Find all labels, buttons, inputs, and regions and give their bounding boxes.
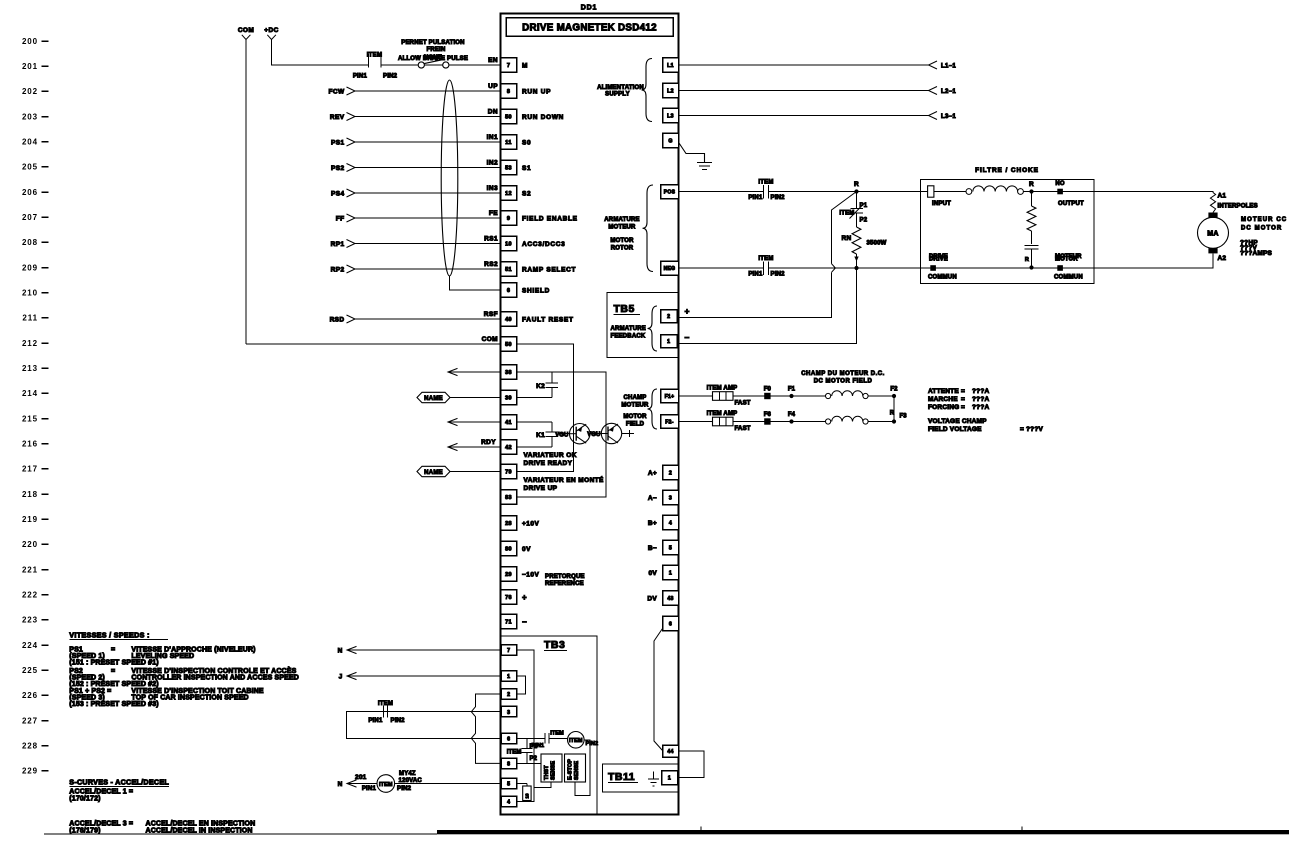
svg-text:RUN UP: RUN UP (522, 88, 551, 95)
svg-text:(151 : PRESET SPEED #1): (151 : PRESET SPEED #1) (69, 660, 158, 667)
wire U1 to U2 (590, 433, 601, 435)
terminal 4 (B+) (663, 515, 679, 530)
svg-text:FCW: FCW (329, 88, 345, 95)
terminal 7 (M) (501, 58, 517, 73)
svg-text:RS2: RS2 (484, 261, 498, 268)
svg-text:3: 3 (669, 496, 672, 502)
terminal TB11-1 (662, 771, 678, 785)
terminal 2 (A+) (663, 465, 679, 480)
svg-text:ITEM: ITEM (569, 738, 583, 744)
svg-text:222: 222 (22, 591, 38, 600)
resistor RN 3500W (856, 213, 858, 227)
svg-text:ARMATURE: ARMATURE (604, 217, 640, 223)
svg-text:12: 12 (505, 191, 512, 197)
svg-text:NONE: NONE (424, 55, 442, 61)
svg-text:42: 42 (505, 445, 512, 451)
svg-text:COM: COM (482, 336, 498, 343)
terminal 49 (FAULT RESET) (501, 312, 517, 327)
terminal 44 (663, 745, 679, 757)
svg-text:???A: ???A (972, 388, 990, 395)
svg-text:VITESSES / SPEEDS :: VITESSES / SPEEDS : (69, 631, 149, 640)
svg-text:204: 204 (22, 137, 38, 146)
svg-text:F2-: F2- (665, 420, 673, 426)
svg-text:FAST: FAST (735, 426, 751, 432)
svg-text:PS4: PS4 (331, 190, 345, 197)
svg-text:NAME: NAME (424, 396, 443, 402)
output arrow at 41 (448, 418, 458, 425)
svg-text:53: 53 (505, 166, 512, 172)
svg-text:PIN2: PIN2 (383, 74, 398, 80)
svg-text:=: = (111, 668, 115, 675)
svg-text:229: 229 (22, 767, 38, 776)
svg-text:PIN2: PIN2 (586, 741, 599, 747)
wire L1 to L1−1 (679, 64, 929, 66)
svg-text:5: 5 (669, 546, 672, 552)
terminal 50 (COM) (501, 337, 517, 352)
svg-text:PIN1: PIN1 (362, 786, 377, 792)
svg-text:R: R (890, 411, 895, 417)
svg-text:B−: B− (648, 545, 657, 552)
svg-text:MOTEUR: MOTEUR (621, 403, 649, 409)
terminal 39 (501, 390, 517, 405)
terminal TB3-4 (501, 796, 517, 807)
terminal NEG (661, 261, 679, 275)
svg-text:9: 9 (507, 216, 510, 222)
wire L2 to L2−1 (679, 90, 929, 92)
wire L3 to L3−1 (679, 115, 929, 117)
svg-text:COM: COM (238, 27, 254, 34)
svg-text:L3: L3 (667, 114, 674, 120)
svg-text:N: N (338, 781, 343, 788)
svg-text:PIN1: PIN1 (368, 718, 383, 724)
svg-text:218: 218 (22, 490, 38, 499)
svg-text:B+: B+ (648, 520, 657, 527)
terminal 79 (501, 464, 517, 479)
svg-text:F1: F1 (788, 387, 796, 393)
terminal 83 (501, 490, 517, 505)
wire POS bus (679, 191, 764, 193)
svg-text:COMMUN: COMMUN (1054, 275, 1083, 281)
svg-text:1: 1 (669, 571, 672, 577)
node F2 (892, 394, 896, 398)
svg-text:=: = (961, 396, 965, 403)
fuse on filter input (928, 186, 934, 197)
svg-text:FIELD VOLTAGE: FIELD VOLTAGE (928, 426, 982, 433)
wire TB3-1 to TB3-2 jumper (517, 676, 526, 694)
ground TB11 (653, 772, 655, 780)
terminal 71 (501, 614, 517, 629)
svg-text:NEG: NEG (664, 266, 676, 272)
svg-text:DC MOTOR FIELD: DC MOTOR FIELD (814, 379, 873, 385)
wire 44 to TB11-1 (678, 751, 704, 778)
terminal TB3-8 (501, 758, 517, 769)
svg-text:RAMP SELECT: RAMP SELECT (522, 266, 576, 273)
motor brush bottom (1208, 248, 1217, 253)
svg-text:ITEM: ITEM (507, 750, 522, 756)
svg-text:ACCEL/DECEL 3 =: ACCEL/DECEL 3 = (69, 820, 133, 827)
terminal 41 (501, 415, 517, 430)
svg-text:RSF: RSF (484, 311, 498, 318)
svg-text:226: 226 (22, 691, 38, 700)
wire hop over NEG (832, 264, 836, 273)
drive block DD1 outline (501, 14, 679, 815)
svg-text:OUTPUT: OUTPUT (1058, 201, 1084, 207)
svg-text:FAULT RESET: FAULT RESET (522, 316, 574, 323)
svg-text:UP: UP (488, 83, 498, 90)
svg-text:227: 227 (22, 716, 38, 725)
wire TB3-2 to TB3-8 with crossover jogs (471, 694, 501, 763)
wire POS through filter (921, 191, 970, 193)
svg-text:+10V: +10V (522, 520, 540, 527)
fuse between TB3-5 and TB3-4 (517, 783, 527, 785)
svg-text:−10V: −10V (522, 571, 540, 578)
svg-text:3500W: 3500W (867, 241, 887, 247)
terminal POS (661, 185, 679, 199)
svg-text:A−: A− (648, 495, 657, 502)
terminal 51 (RAMP SELECT) (501, 262, 517, 277)
svg-text:PIN2: PIN2 (771, 272, 786, 278)
title box DRIVE MAGNETEK DSD412 (506, 18, 673, 37)
svg-text:N: N (338, 647, 343, 654)
terminal TB5-2 (+) (661, 310, 678, 323)
ground at G (679, 143, 705, 163)
svg-text:PIN2: PIN2 (391, 718, 406, 724)
svg-text:SENSE: SENSE (551, 761, 557, 780)
svg-text:P2: P2 (860, 218, 868, 224)
terminal 1 (0V) (663, 565, 679, 580)
contact ITEM PIN1/PIN2 in NEG lead (763, 261, 765, 275)
line number rail 200-229 (22, 37, 38, 776)
svg-text:−: − (685, 333, 690, 343)
svg-text:=: = (961, 404, 965, 411)
block TB11 (603, 764, 679, 792)
svg-text:221: 221 (22, 565, 38, 574)
switch PERMET PULSATION FREIN / ALLOW BRAKE PULSE (381, 64, 418, 66)
svg-text:215: 215 (22, 414, 38, 423)
svg-text:P2: P2 (530, 756, 538, 762)
junction filter cap to commun (1029, 265, 1033, 269)
svg-text:SHIELD: SHIELD (522, 287, 550, 294)
svg-text:DRIVE: DRIVE (929, 257, 948, 263)
svg-text:CHAMP: CHAMP (624, 395, 647, 401)
svg-text:DRIVE UP: DRIVE UP (524, 485, 558, 492)
svg-text:VARIATEUR OK: VARIATEUR OK (524, 452, 577, 459)
svg-text:PRETORQUE: PRETORQUE (545, 574, 585, 580)
svg-text:IN2: IN2 (487, 160, 498, 167)
interpoles winding (1210, 193, 1215, 213)
svg-text:29: 29 (505, 572, 512, 578)
terminal TB3-3 (501, 706, 517, 717)
svg-text:MA: MA (1207, 231, 1219, 238)
svg-text:NAME: NAME (424, 470, 443, 476)
svg-text:2: 2 (669, 471, 672, 477)
vertical through U1 (COM-79 net) (573, 344, 575, 472)
svg-text:212: 212 (22, 339, 38, 348)
motor MA (1198, 217, 1229, 248)
wire NEG through filter (921, 267, 1095, 269)
svg-text:200: 200 (22, 37, 38, 46)
svg-text:RP2: RP2 (331, 266, 345, 273)
svg-text:ATTENTE: ATTENTE (928, 388, 959, 395)
svg-text:=: = (111, 646, 115, 653)
svg-text:211: 211 (22, 314, 38, 323)
svg-text:= ???V: = ???V (1020, 426, 1044, 433)
svg-text:8: 8 (507, 762, 510, 768)
svg-text:208: 208 (22, 238, 38, 247)
svg-text:DN: DN (488, 109, 498, 116)
svg-text:S1: S1 (522, 165, 531, 172)
svg-text:38: 38 (505, 370, 512, 376)
svg-text:201: 201 (22, 62, 38, 71)
node F3 (892, 419, 896, 423)
svg-text:F1+: F1+ (665, 394, 675, 400)
svg-text:219: 219 (22, 515, 38, 524)
terminal TB5-1 (-) (661, 335, 678, 348)
svg-text:FAST: FAST (735, 401, 751, 407)
terminal 53 (S1) (501, 160, 517, 175)
svg-text:TB5: TB5 (614, 303, 635, 315)
svg-text:TB3: TB3 (544, 639, 565, 651)
svg-text:ITEM: ITEM (378, 701, 393, 707)
svg-text:MOTOR: MOTOR (610, 238, 634, 244)
svg-text:MY4Z: MY4Z (399, 771, 416, 777)
relay contact K2 between 38 and 39 (517, 397, 552, 399)
svg-text:PERNET PULSATION: PERNET PULSATION (401, 40, 464, 46)
svg-text:E-STOP: E-STOP (568, 759, 574, 780)
transistor/opto U1 (570, 424, 590, 444)
wire COM vertical to terminal 50 (245, 40, 247, 345)
svg-text:MOTEUR: MOTEUR (608, 225, 636, 231)
svg-text:220: 220 (22, 540, 38, 549)
svg-text:80: 80 (505, 547, 512, 553)
svg-text:+DC: +DC (264, 27, 278, 34)
svg-text:7: 7 (507, 63, 510, 69)
terminal 3 (A−) (663, 490, 679, 505)
svg-text:L1−1: L1−1 (941, 63, 956, 69)
svg-text:F0: F0 (764, 387, 772, 393)
block FILTRE / CHOKE (921, 180, 1095, 284)
terminal 50 (RUN DOWN) (501, 109, 517, 124)
arrow L1−1 (929, 61, 938, 69)
svg-text:2: 2 (667, 314, 670, 320)
svg-text:MOTOR: MOTOR (623, 414, 647, 420)
svg-text:(153 : PRESET SPEED #3): (153 : PRESET SPEED #3) (69, 701, 158, 708)
node tag NAME to terminal 79 (450, 471, 501, 473)
breaker contact ITEM P1/P2 (856, 192, 858, 209)
svg-text:(170/172): (170/172) (69, 796, 100, 803)
svg-text:RS1: RS1 (484, 236, 498, 243)
svg-text:3: 3 (507, 710, 510, 716)
box THST SENSE (541, 754, 562, 782)
svg-text:PIN1: PIN1 (353, 74, 368, 80)
svg-text:COMMUN: COMMUN (928, 275, 957, 281)
field circuit row F2 (679, 421, 713, 423)
svg-text:???A: ???A (972, 396, 990, 403)
wire motor A2 return (1094, 253, 1213, 268)
svg-text:+: + (685, 306, 690, 316)
svg-text:FF: FF (336, 215, 345, 222)
svg-text:202: 202 (22, 87, 38, 96)
cable bundle (shielded group) (441, 80, 458, 276)
svg-text:217: 217 (22, 465, 38, 474)
svg-text:VGU: VGU (555, 432, 568, 438)
svg-text:RDY: RDY (481, 439, 496, 446)
svg-text:209: 209 (22, 263, 38, 272)
svg-text:4: 4 (507, 800, 510, 806)
svg-text:L3−1: L3−1 (941, 114, 956, 120)
svg-text:K2: K2 (536, 383, 545, 390)
svg-text:39: 39 (505, 396, 512, 402)
svg-text:G: G (668, 139, 672, 145)
svg-text:1: 1 (507, 674, 510, 680)
svg-text:−: − (522, 618, 527, 627)
svg-text:VARIATEUR EN MONTÉ: VARIATEUR EN MONTÉ (524, 475, 605, 484)
svg-text:205: 205 (22, 163, 38, 172)
svg-text:DRIVE MAGNETEK DSD412: DRIVE MAGNETEK DSD412 (522, 23, 657, 34)
svg-text:FORCING: FORCING (928, 404, 959, 411)
svg-text:S0: S0 (522, 139, 531, 146)
svg-text:225: 225 (22, 666, 38, 675)
svg-text:PIN1: PIN1 (532, 743, 545, 749)
svg-text:R: R (1025, 257, 1029, 263)
terminal 38 (501, 365, 517, 380)
block TB5 armature feedback (607, 293, 679, 358)
svg-text:ITEM: ITEM (758, 180, 773, 186)
terminal 28 (501, 516, 517, 531)
svg-text:VGU: VGU (587, 432, 600, 438)
svg-text:FIELD: FIELD (626, 422, 645, 428)
svg-text:ITEM AMP: ITEM AMP (707, 411, 738, 417)
transistor/opto U2 (601, 423, 621, 443)
terminal TB3-5 (501, 778, 517, 789)
node tag NAME to terminal 39 (450, 397, 501, 399)
svg-text:IN1: IN1 (487, 134, 498, 141)
svg-text:1: 1 (667, 339, 670, 345)
terminal 8 (RUN UP) (501, 84, 517, 99)
wire TB3-8 to THST (517, 762, 542, 764)
terminal 9 (FIELD ENABLE) (501, 211, 517, 226)
brace armature (643, 185, 654, 272)
wire 6 to 44 (654, 629, 663, 751)
svg-text:F4: F4 (788, 412, 796, 418)
wire U2 output lead (622, 433, 634, 435)
svg-text:ARMATURE: ARMATURE (611, 326, 647, 332)
filter capacitor (1031, 231, 1033, 244)
svg-text:228: 228 (22, 742, 38, 751)
filter damping resistor (1031, 192, 1033, 207)
svg-text:SENSE: SENSE (574, 761, 580, 780)
wire +DC down and to brake-permit contact (272, 40, 369, 66)
wire K1 to opto U1 (558, 433, 570, 435)
terminal NO (output) (1057, 189, 1063, 195)
terminal L3 (663, 108, 679, 123)
inductor choke (966, 189, 972, 195)
contact ITEM PIN1/PIN2 (allow brake pulse) (368, 54, 370, 68)
svg-text:120VAC: 120VAC (399, 778, 423, 784)
svg-text:201: 201 (355, 774, 367, 781)
svg-text:11: 11 (505, 140, 511, 146)
svg-text:INTERPOLES: INTERPOLES (1218, 204, 1258, 210)
svg-text:ITEM: ITEM (839, 211, 854, 217)
svg-text:S-CURVES - ACCEL/DECEL: S-CURVES - ACCEL/DECEL (69, 777, 169, 786)
terminal TB3-7 (501, 645, 517, 656)
output arrow RDY at 42 (448, 443, 458, 450)
svg-text:L1: L1 (667, 63, 674, 69)
svg-text:RUN DOWN: RUN DOWN (522, 114, 564, 121)
svg-text:NO: NO (1055, 181, 1064, 187)
svg-text:MOTEUR CC: MOTEUR CC (1241, 217, 1287, 223)
svg-text:223: 223 (22, 616, 38, 625)
svg-text:MARCHE: MARCHE (928, 396, 958, 403)
svg-text:83: 83 (505, 495, 512, 501)
svg-text:FE: FE (489, 210, 498, 217)
relay contact K1 between 41 and 42 (517, 421, 552, 423)
wire TB3-7 down to TB3-4 (517, 650, 534, 802)
svg-text:TB11: TB11 (608, 771, 635, 783)
svg-text:POS: POS (664, 190, 676, 196)
svg-text:51: 51 (505, 267, 512, 273)
svg-text:0V: 0V (522, 546, 531, 553)
wire THST sense to bus (534, 782, 551, 788)
svg-text:L2: L2 (667, 89, 674, 95)
svg-text:6: 6 (507, 288, 510, 294)
terminal 12 (S2) (501, 186, 517, 201)
terminal G (663, 133, 679, 148)
svg-text:2: 2 (507, 692, 510, 698)
terminal DRIVE COMMUN (930, 265, 936, 271)
wire 38 to 83 internal (517, 372, 607, 497)
svg-text:RN: RN (842, 235, 852, 242)
svg-text:DC MOTOR: DC MOTOR (1241, 226, 1282, 232)
node R on POS (854, 189, 858, 193)
svg-text:5: 5 (507, 782, 510, 788)
wire loop TB3-3 to TB3-6 with contact (384, 711, 502, 713)
svg-text:PIN2: PIN2 (771, 195, 786, 201)
svg-text:REV: REV (330, 114, 345, 121)
svg-text:76: 76 (505, 595, 512, 601)
terminal F1+ (661, 389, 679, 403)
brace champ moteur (648, 389, 658, 429)
block TB3 (501, 636, 598, 815)
svg-text:RSD: RSD (330, 316, 345, 323)
svg-text:4: 4 (669, 521, 672, 527)
terminal 42 (501, 440, 517, 455)
svg-text:224: 224 (22, 641, 38, 650)
svg-text:???AMPS: ???AMPS (1240, 250, 1273, 257)
svg-text:8: 8 (507, 89, 510, 95)
svg-text:ITEM: ITEM (550, 731, 564, 737)
terminal 6 (right) (663, 616, 679, 631)
svg-text:43: 43 (667, 596, 673, 602)
svg-text:ITEM AMP: ITEM AMP (707, 386, 738, 392)
svg-text:FIELD ENABLE: FIELD ENABLE (522, 215, 578, 222)
svg-text:A2: A2 (1218, 255, 1227, 262)
svg-text:16: 16 (525, 793, 530, 799)
terminal 10 (ACC3/DCC3) (501, 236, 517, 251)
terminal 29 (501, 567, 517, 582)
svg-text:PIN1: PIN1 (748, 195, 763, 201)
svg-text:THST: THST (544, 765, 550, 780)
svg-text:+: + (522, 593, 527, 602)
svg-text:PS1: PS1 (331, 139, 345, 146)
svg-text:44: 44 (667, 749, 673, 755)
box E-STOP SENSE (565, 754, 586, 782)
svg-text:FILTRE / CHOKE: FILTRE / CHOKE (975, 167, 1039, 174)
svg-text:PIN2: PIN2 (397, 786, 412, 792)
terminal MOTEUR COMMUN (1057, 265, 1063, 271)
svg-text:VOLTAGE CHAMP: VOLTAGE CHAMP (928, 418, 987, 425)
svg-text:K1: K1 (536, 432, 545, 439)
